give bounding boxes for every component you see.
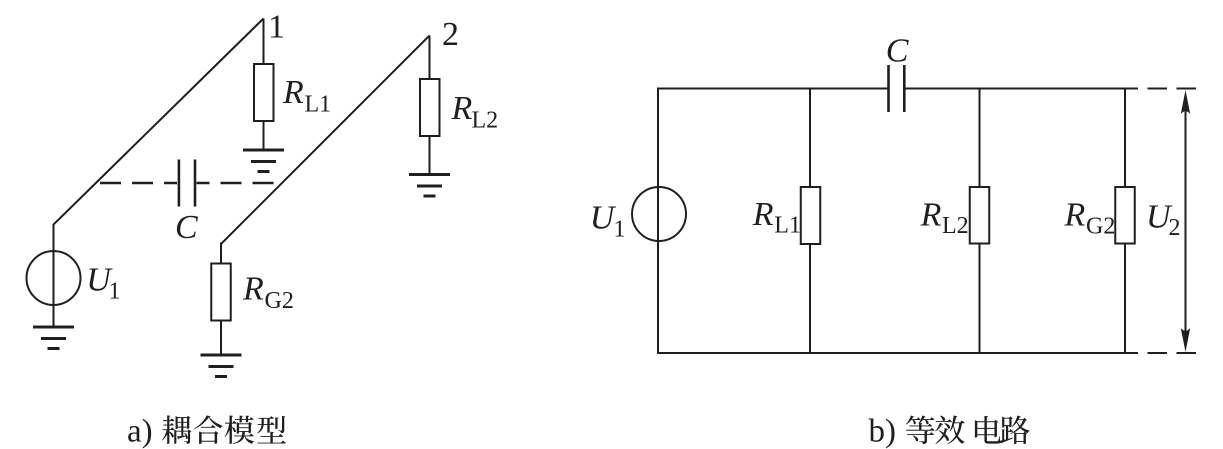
- svg-text:C: C: [175, 209, 198, 246]
- svg-text:L1: L1: [305, 92, 332, 118]
- svg-text:R: R: [451, 90, 473, 127]
- svg-text:L1: L1: [774, 213, 801, 239]
- svg-text:R: R: [282, 74, 304, 111]
- svg-text:L2: L2: [942, 213, 969, 239]
- svg-text:1: 1: [109, 279, 121, 305]
- svg-text:G2: G2: [1086, 213, 1115, 239]
- svg-text:2: 2: [1169, 215, 1181, 241]
- svg-text:R: R: [752, 196, 774, 233]
- svg-text:L2: L2: [472, 107, 499, 133]
- svg-text:1: 1: [268, 9, 285, 46]
- svg-text:R: R: [1064, 197, 1086, 234]
- svg-text:a): a): [127, 414, 153, 449]
- svg-text:2: 2: [442, 16, 459, 53]
- svg-text:C: C: [886, 33, 909, 70]
- svg-text:R: R: [920, 197, 942, 234]
- svg-text:G2: G2: [265, 288, 294, 314]
- svg-text:b): b): [869, 414, 897, 449]
- svg-text:R: R: [242, 271, 264, 308]
- svg-text:1: 1: [614, 217, 626, 243]
